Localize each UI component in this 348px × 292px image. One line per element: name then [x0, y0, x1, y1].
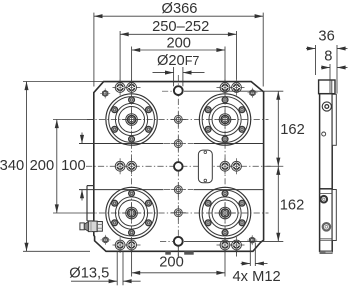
- side view small hole: [322, 132, 326, 136]
- dimension line 200 left: [55, 120, 59, 214]
- centerline top hole pair right: [217, 87, 245, 89]
- step edge line lower: [79, 189, 164, 191]
- svg-text:250–252: 250–252: [152, 19, 209, 35]
- dimension arrows Ø20F7: [153, 71, 205, 75]
- extension line 250-252 right: [236, 31, 238, 80]
- center column hole y189.6: [171, 182, 186, 197]
- svg-text:4x M12: 4x M12: [233, 269, 281, 285]
- svg-text:100: 100: [61, 158, 86, 174]
- mounting hole x225.0 middle row: [220, 158, 230, 174]
- side view top block: [319, 80, 335, 94]
- side view divider thin: [320, 192, 333, 194]
- extension line 162 middle: [267, 165, 284, 167]
- svg-text:200: 200: [30, 158, 55, 174]
- centerline column left modules: [131, 83, 133, 249]
- extension line 340 bottom: [23, 250, 90, 252]
- side view top block divider: [331, 80, 333, 94]
- mounting hole x225.0 bottom row: [220, 237, 230, 253]
- center column hole y119.4: [171, 112, 186, 127]
- extension line Ø366 left: [93, 13, 95, 87]
- extension line 200 bottom left: [131, 251, 133, 277]
- corner hole M12 top-right: [248, 88, 258, 98]
- extension line 36 left: [315, 45, 317, 75]
- mounting hole x120.1 bottom row: [115, 237, 125, 253]
- extension line 340 top: [23, 81, 104, 83]
- svg-text:Ø13,5: Ø13,5: [69, 265, 109, 281]
- side view foot: [320, 251, 332, 253]
- extension line 8 left: [329, 64, 331, 94]
- center column hole y143.6: [171, 136, 186, 151]
- mounting hole x131.6 bottom row: [127, 237, 137, 253]
- extension line 4xM12 left: [249, 243, 251, 267]
- dimension line 340: [24, 82, 28, 252]
- side view screw lower: [323, 223, 330, 230]
- corner hole M12 bottom-right: [247, 235, 257, 245]
- side view main body: [320, 94, 333, 252]
- dimension line 162 lower: [276, 166, 280, 241]
- crosshair dash upper hole: [164, 143, 193, 145]
- dimension arrows 4xM12: [241, 261, 268, 265]
- svg-text:200: 200: [159, 254, 184, 270]
- dimension line 250-252: [120, 32, 236, 36]
- side view screw middle: [321, 196, 328, 203]
- extension line 200 top left: [131, 47, 133, 84]
- support foot right: [184, 251, 194, 254]
- centerline row bottom modules: [87, 212, 269, 214]
- corner hole M12 top-left: [100, 88, 110, 98]
- extension line 200 left top: [53, 119, 94, 121]
- dimension arrows 36: [306, 46, 348, 50]
- svg-text:8: 8: [324, 48, 332, 64]
- centerline bottom hole pair right: [217, 244, 245, 246]
- mounting hole x236.5 bottom row: [232, 237, 242, 253]
- extension line 162 bottom: [160, 240, 283, 242]
- mounting hole x120.1 top row: [115, 80, 125, 96]
- svg-text:162: 162: [280, 198, 305, 214]
- dimension line 162 upper: [276, 91, 280, 166]
- extension line 200 bottom right: [224, 251, 226, 277]
- clamping module top-right: [199, 94, 250, 145]
- extension line 4xM12 right: [254, 243, 256, 267]
- extension line 200 top right: [224, 47, 226, 84]
- centerline top hole pair left: [113, 87, 141, 89]
- centerline row top modules: [87, 119, 269, 121]
- dimension arrows 8: [321, 65, 348, 69]
- dimension arrows 100: [80, 133, 84, 201]
- mounting hole x120.1 middle row: [115, 158, 125, 174]
- extension line Ø366 right: [262, 13, 264, 87]
- extension line 200 left bottom: [53, 212, 95, 214]
- fit hole center Ø20F7: [174, 162, 183, 171]
- step edge line upper: [79, 143, 164, 145]
- mounting hole x225.0 top row: [220, 80, 230, 96]
- svg-text:Ø20F7: Ø20F7: [157, 53, 199, 69]
- extension line Ø20F7 left: [173, 67, 175, 86]
- extension line Ø13,5 left: [116, 251, 118, 286]
- centerline middle row: [86, 165, 272, 167]
- support foot left: [165, 251, 171, 254]
- plate outline (front view): [94, 82, 264, 252]
- dimension line 200 top: [132, 48, 225, 52]
- svg-text:340: 340: [0, 158, 24, 174]
- svg-text:200: 200: [166, 35, 191, 51]
- side view screw upper: [322, 102, 331, 111]
- side view rail upper: [332, 94, 336, 145]
- extension line Ø13,5 right: [122, 251, 124, 286]
- corner hole M12 bottom-left: [101, 235, 111, 245]
- svg-text:Ø366: Ø366: [162, 1, 198, 17]
- svg-text:162: 162: [280, 122, 305, 138]
- clamping module bottom-left: [106, 187, 157, 238]
- center column hole y212.7: [171, 205, 186, 220]
- fit hole Ø20F7 bottom: [174, 237, 183, 246]
- step edge line upper right part: [194, 143, 264, 145]
- pneumatic fitting: [80, 221, 103, 232]
- extension line 36 right: [336, 45, 338, 94]
- extension stub center bottom: [177, 246, 179, 256]
- mounting hole x131.6 middle row: [127, 158, 137, 174]
- crosshair dash lower hole: [164, 189, 193, 191]
- centerline bottom hole pair left: [113, 244, 141, 246]
- left connector block: [87, 186, 94, 221]
- extension stub right pair bottom: [236, 251, 238, 257]
- fit hole Ø20F7 top: [174, 86, 183, 95]
- extension line 250-252 left: [119, 31, 121, 83]
- step edge line lower right part: [194, 189, 264, 191]
- side view divider thick: [320, 188, 333, 190]
- centerline center column: [177, 75, 179, 257]
- index slot: [198, 150, 212, 183]
- side view rail lower: [332, 190, 336, 241]
- svg-text:36: 36: [318, 28, 334, 44]
- dimension arrows Ø13,5: [71, 279, 141, 283]
- side view divider bottom: [320, 239, 333, 241]
- dimension line 200 bottom: [132, 271, 225, 275]
- mounting hole x236.5 middle row: [232, 158, 242, 174]
- dimension line Ø366: [94, 14, 263, 18]
- extension line 162 top: [162, 90, 283, 92]
- extension line Ø20F7 right: [182, 67, 184, 86]
- mounting hole x131.6 top row: [127, 80, 137, 96]
- clamping module bottom-right: [199, 187, 250, 238]
- centerline column right modules: [224, 83, 226, 249]
- clamping module top-left: [106, 94, 157, 145]
- mounting hole x236.5 top row: [232, 80, 242, 96]
